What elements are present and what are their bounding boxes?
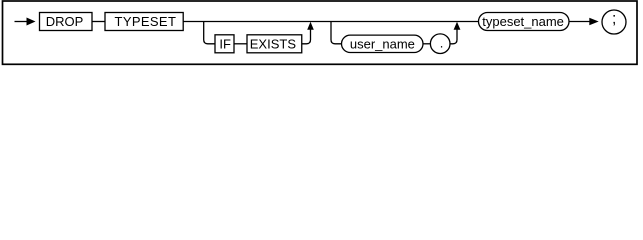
svg-text:EXISTS: EXISTS (250, 36, 297, 51)
wire: typeset_name to semicolon (569, 21, 590, 23)
wire: start shaft (15, 21, 28, 23)
svg-text:typeset_name: typeset_name (482, 14, 564, 29)
arrowhead: user_name branch rejoin (points up) (454, 22, 461, 30)
svg-text:;: ; (612, 10, 616, 27)
wire: dot circle up-riser rejoining main line (450, 30, 457, 44)
arrowhead: start arrow into DROP (27, 18, 36, 26)
wire: EXISTS up-riser rejoining main line (302, 30, 311, 44)
svg-text:DROP: DROP (46, 14, 84, 29)
wire: user_name to dot circle (423, 43, 430, 45)
wire: branch down to IF (split at x=204) (204, 22, 215, 44)
arrowhead: EXISTS branch rejoin (points up) (307, 22, 314, 30)
terminal box EXISTS (247, 35, 302, 53)
nonterminal oval user_name (342, 35, 424, 52)
wire: DROP to TYPESET (92, 21, 105, 23)
svg-text:TYPESET: TYPESET (115, 14, 177, 29)
nonterminal oval typeset_name (479, 13, 570, 31)
wire: branch down to user_name (split at x=331) (331, 22, 342, 44)
terminal circle ; (602, 10, 626, 34)
terminal box DROP (40, 13, 93, 31)
arrowhead: into semicolon circle (589, 18, 598, 26)
wire: main line TYPESET to typeset_name oval (183, 21, 478, 23)
svg-text:user_name: user_name (350, 36, 415, 51)
wire: IF to EXISTS (234, 43, 247, 45)
terminal box TYPESET (105, 13, 183, 31)
svg-text:.: . (440, 35, 444, 50)
terminal box IF (215, 35, 234, 53)
border frame (3, 1, 638, 64)
svg-text:IF: IF (219, 36, 231, 51)
terminal circle . (430, 34, 450, 54)
